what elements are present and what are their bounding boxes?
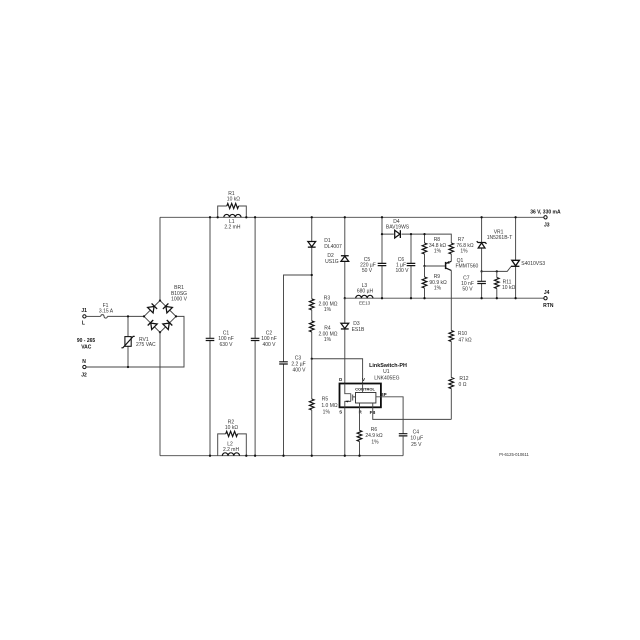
svg-text:1000 V: 1000 V xyxy=(171,296,188,302)
wire top rail xyxy=(160,216,544,218)
svg-text:1N5261B-T: 1N5261B-T xyxy=(487,235,513,241)
svg-text:10 kΩ: 10 kΩ xyxy=(502,285,515,291)
svg-text:U1: U1 xyxy=(383,369,390,375)
svg-text:R6: R6 xyxy=(371,427,378,433)
wire gate xyxy=(482,267,511,272)
node S ground xyxy=(344,455,346,457)
fuse F1 xyxy=(86,303,144,318)
node D4 tap xyxy=(381,233,383,235)
node R6 bottom xyxy=(358,455,360,457)
svg-text:10 kΩ: 10 kΩ xyxy=(227,196,240,202)
svg-text:1%: 1% xyxy=(371,440,379,446)
inductor L1 xyxy=(224,214,241,230)
svg-text:RTN: RTN xyxy=(543,303,554,309)
label PI number xyxy=(499,452,529,457)
node C2 top xyxy=(254,216,256,218)
svg-text:J1: J1 xyxy=(81,308,87,314)
svg-text:R5: R5 xyxy=(322,397,329,403)
svg-text:S4010VS3: S4010VS3 xyxy=(521,261,545,267)
node VR1 bottom junction xyxy=(480,270,482,272)
diode D3 xyxy=(341,298,365,383)
wire RTN rail xyxy=(345,297,544,299)
svg-text:400 V: 400 V xyxy=(292,368,306,374)
capacitor C1 xyxy=(206,217,234,455)
resistor R5 xyxy=(309,359,337,456)
node C1 bottom xyxy=(209,455,211,457)
svg-text:1%: 1% xyxy=(434,285,442,291)
inductor L2 xyxy=(222,442,239,456)
resistor R3 xyxy=(309,295,337,321)
node R5 bottom xyxy=(311,455,313,457)
node L2 right xyxy=(245,455,247,457)
svg-text:EE13: EE13 xyxy=(359,301,371,306)
svg-text:BP: BP xyxy=(381,392,387,397)
node RV1 bottom junction xyxy=(127,366,129,368)
node C5 top xyxy=(381,216,383,218)
svg-text:90 - 265: 90 - 265 xyxy=(77,338,96,344)
IC U1 LNK405EG xyxy=(339,377,387,415)
svg-text:1%: 1% xyxy=(323,409,331,415)
resistor R9 xyxy=(422,266,447,298)
capacitor C4 xyxy=(399,430,423,456)
svg-text:J2: J2 xyxy=(81,373,87,379)
wire bottom rail xyxy=(160,455,403,457)
svg-text:R3: R3 xyxy=(324,295,331,301)
svg-text:24.9 kΩ: 24.9 kΩ xyxy=(365,433,383,439)
svg-text:ES1B: ES1B xyxy=(352,327,365,333)
svg-text:BAV19WS: BAV19WS xyxy=(386,225,410,231)
svg-text:J3: J3 xyxy=(544,222,550,228)
node VR1 top xyxy=(480,216,482,218)
label 90-265 VAC xyxy=(77,338,96,351)
wire bridge output top xyxy=(159,217,161,300)
node C7 bottom xyxy=(480,297,482,299)
capacitor C3 xyxy=(279,355,306,455)
capacitor C5 xyxy=(360,217,386,298)
svg-text:2.2 mH: 2.2 mH xyxy=(223,447,240,453)
svg-text:C3: C3 xyxy=(295,355,302,361)
svg-text:R4: R4 xyxy=(324,325,331,331)
svg-text:10 µF: 10 µF xyxy=(410,436,423,442)
wire neutral xyxy=(86,316,184,367)
svg-text:1%: 1% xyxy=(460,248,468,254)
label LinkSwitch-PH xyxy=(369,363,407,381)
svg-text:C4: C4 xyxy=(413,430,420,436)
node RV1 top junction xyxy=(127,315,129,317)
node thyristor bottom xyxy=(514,297,516,299)
svg-text:1.0 MΩ: 1.0 MΩ xyxy=(321,403,338,409)
node C6 bottom xyxy=(410,297,412,299)
svg-text:S: S xyxy=(339,410,342,415)
svg-text:PI-6125-010611: PI-6125-010611 xyxy=(499,452,529,457)
svg-text:400 V: 400 V xyxy=(262,342,276,348)
svg-text:CONTROL: CONTROL xyxy=(355,387,375,392)
svg-text:LNK405EG: LNK405EG xyxy=(374,375,399,381)
capacitor C2 xyxy=(251,217,277,455)
wire V pin sense xyxy=(312,359,363,384)
svg-text:3.15 A: 3.15 A xyxy=(99,308,114,314)
node bridge bottom xyxy=(159,331,161,333)
wire bridge output bottom xyxy=(159,332,161,455)
resistor R4 xyxy=(309,321,337,359)
svg-text:36 V, 330 mA: 36 V, 330 mA xyxy=(530,210,561,216)
node J2 neutral terminal xyxy=(81,359,87,379)
svg-text:D1: D1 xyxy=(324,238,331,244)
resistor R12 xyxy=(449,376,469,420)
node J3 output terminal xyxy=(530,210,561,229)
node C6 top xyxy=(410,233,412,235)
resistor R7 xyxy=(449,237,474,261)
svg-text:2.2 µF: 2.2 µF xyxy=(291,361,305,367)
varistor RV1 xyxy=(121,316,156,367)
node R9 bottom xyxy=(423,297,425,299)
svg-text:630 V: 630 V xyxy=(219,342,233,348)
node base junction xyxy=(423,265,425,267)
diode D1 xyxy=(308,217,342,299)
svg-text:0 Ω: 0 Ω xyxy=(459,382,467,388)
node R4 bottom junction xyxy=(311,358,313,360)
node R8 top xyxy=(423,233,425,235)
svg-text:1%: 1% xyxy=(324,307,332,313)
thyristor S4010VS3 xyxy=(511,217,545,298)
node C5 bottom xyxy=(381,297,383,299)
svg-text:FMMT560: FMMT560 xyxy=(456,263,479,269)
node bridge right xyxy=(175,315,177,317)
resistor R2 xyxy=(218,419,247,455)
node C3 bottom xyxy=(282,455,284,457)
svg-text:1%: 1% xyxy=(324,337,332,343)
node C1 top xyxy=(209,216,211,218)
svg-text:D: D xyxy=(339,377,342,382)
node gate junction xyxy=(496,270,498,272)
svg-text:25 V: 25 V xyxy=(411,442,422,448)
svg-text:275 VAC: 275 VAC xyxy=(136,342,156,348)
node bridge left xyxy=(143,315,145,317)
svg-text:50 V: 50 V xyxy=(362,268,373,274)
node J4 output terminal xyxy=(543,290,554,309)
node D1 cathode junction xyxy=(311,274,313,276)
node D1 top xyxy=(311,216,313,218)
wire D4 branch xyxy=(382,234,451,243)
svg-text:10 kΩ: 10 kΩ xyxy=(225,425,238,431)
bridge BR1 xyxy=(144,285,188,332)
node switch node xyxy=(344,297,346,299)
node R11 bottom xyxy=(496,297,498,299)
node bridge top xyxy=(159,299,161,301)
svg-text:J4: J4 xyxy=(544,290,550,296)
node D2 top xyxy=(344,216,346,218)
node thyristor top xyxy=(514,216,516,218)
svg-text:US1G: US1G xyxy=(325,259,339,265)
resistor R8 xyxy=(422,234,446,266)
node C2 bottom xyxy=(254,455,256,457)
svg-text:R10: R10 xyxy=(458,331,467,337)
svg-text:47 kΩ: 47 kΩ xyxy=(458,337,471,343)
node J1 input terminal xyxy=(81,308,87,327)
wire S to ground xyxy=(344,407,346,455)
resistor R1 xyxy=(218,191,247,217)
svg-text:2.2 mH: 2.2 mH xyxy=(224,225,241,231)
svg-text:N: N xyxy=(82,359,86,365)
svg-text:V: V xyxy=(362,377,365,382)
diode D2 xyxy=(325,217,349,298)
node L1 right xyxy=(245,216,247,218)
svg-text:VAC: VAC xyxy=(81,345,92,351)
svg-text:DL4007: DL4007 xyxy=(324,244,342,250)
svg-text:L: L xyxy=(82,321,85,327)
svg-text:1%: 1% xyxy=(434,248,442,254)
transistor Q1 xyxy=(425,258,479,331)
inductor L3 xyxy=(356,283,374,306)
wire C3 branch xyxy=(284,275,312,362)
zener VR1 xyxy=(477,217,513,271)
resistor R10 xyxy=(449,331,472,378)
svg-text:680 µH: 680 µH xyxy=(357,288,374,294)
diode D4 xyxy=(386,219,410,238)
node L1 left xyxy=(217,216,219,218)
resistor R6 xyxy=(357,407,383,455)
wire BP line xyxy=(381,397,403,434)
svg-text:100 V: 100 V xyxy=(395,268,409,274)
capacitor C7 xyxy=(461,271,486,298)
wire FB line xyxy=(373,407,452,419)
svg-text:50 V: 50 V xyxy=(462,287,473,293)
capacitor C6 xyxy=(395,234,415,298)
resistor R11 xyxy=(495,271,516,298)
